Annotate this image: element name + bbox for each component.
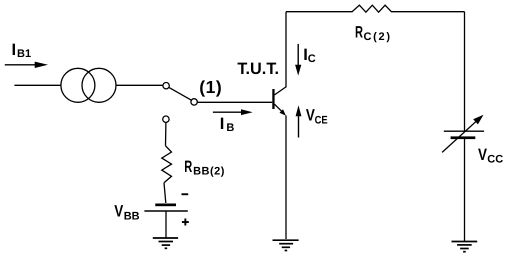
- svg-text:V: V: [478, 146, 487, 164]
- svg-text:R: R: [184, 158, 192, 176]
- svg-text:T.U.T.: T.U.T.: [237, 60, 279, 78]
- svg-text:V: V: [114, 202, 123, 220]
- svg-text:CC: CC: [487, 153, 503, 165]
- svg-text:V: V: [306, 106, 315, 124]
- svg-text:B1: B1: [17, 48, 31, 60]
- svg-text:I: I: [220, 115, 225, 133]
- svg-text:I: I: [12, 41, 17, 59]
- svg-text:R: R: [355, 23, 363, 41]
- svg-text:BB: BB: [124, 210, 140, 222]
- svg-text:B: B: [226, 122, 234, 134]
- svg-text:BB(2): BB(2): [193, 166, 225, 178]
- svg-text:C: C: [308, 53, 316, 65]
- svg-text:CE: CE: [315, 114, 328, 126]
- svg-text:C(2): C(2): [364, 31, 392, 43]
- svg-text:(1): (1): [199, 77, 222, 97]
